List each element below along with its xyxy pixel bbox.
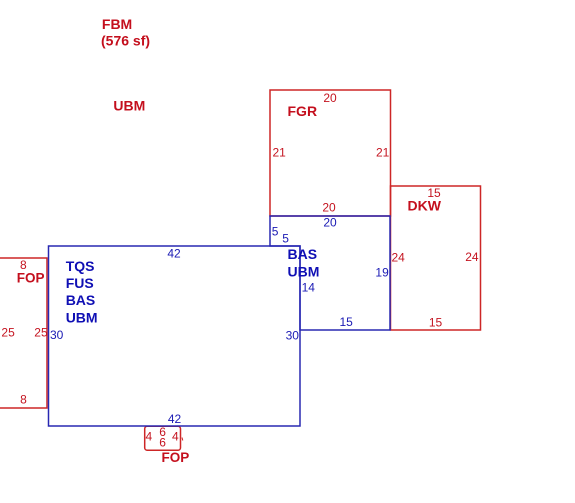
svg-text:30: 30 [50, 328, 64, 342]
stray tick mark [181, 438, 184, 441]
svg-text:FUS: FUS [66, 275, 94, 291]
svg-text:FOP: FOP [17, 270, 45, 285]
FOP left porch outline [0, 258, 47, 408]
svg-text:UBM: UBM [66, 309, 98, 325]
svg-text:BAS: BAS [288, 246, 318, 262]
svg-text:FBM: FBM [102, 16, 132, 32]
svg-text:5: 5 [272, 224, 279, 238]
svg-text:15: 15 [340, 315, 354, 329]
FGR garage outline [270, 90, 391, 216]
svg-text:24: 24 [465, 250, 479, 264]
svg-text:20: 20 [323, 91, 337, 105]
FOP bottom porch outline [145, 426, 181, 450]
svg-text:UBM: UBM [113, 97, 145, 113]
svg-text:19: 19 [375, 266, 389, 280]
DKW deck outline [391, 186, 481, 330]
svg-text:TQS: TQS [66, 258, 95, 274]
svg-text:21: 21 [273, 146, 287, 160]
svg-text:5: 5 [282, 232, 289, 246]
svg-text:UBM: UBM [288, 263, 320, 279]
svg-text:42: 42 [168, 412, 182, 426]
svg-text:BAS: BAS [66, 292, 96, 308]
svg-text:20: 20 [323, 215, 337, 229]
svg-text:24: 24 [392, 250, 406, 264]
svg-text:25: 25 [34, 326, 48, 340]
svg-text:20: 20 [322, 201, 336, 215]
svg-text:4: 4 [172, 430, 179, 444]
svg-text:(576 sf): (576 sf) [101, 33, 150, 49]
svg-text:21: 21 [376, 146, 390, 160]
main house outline (TQS/FUS/BAS/UBM) [49, 246, 301, 426]
svg-text:8: 8 [20, 392, 27, 406]
svg-text:25: 25 [1, 326, 15, 340]
svg-text:FGR: FGR [288, 103, 318, 119]
svg-text:14: 14 [302, 281, 316, 295]
BAS/UBM upper-right area outline [270, 216, 390, 330]
svg-text:FOP: FOP [162, 450, 190, 465]
svg-text:30: 30 [286, 329, 300, 343]
svg-text:DKW: DKW [408, 198, 442, 214]
svg-text:15: 15 [429, 315, 443, 329]
svg-text:42: 42 [167, 246, 181, 260]
svg-text:4: 4 [145, 430, 152, 444]
svg-text:6: 6 [159, 436, 166, 450]
